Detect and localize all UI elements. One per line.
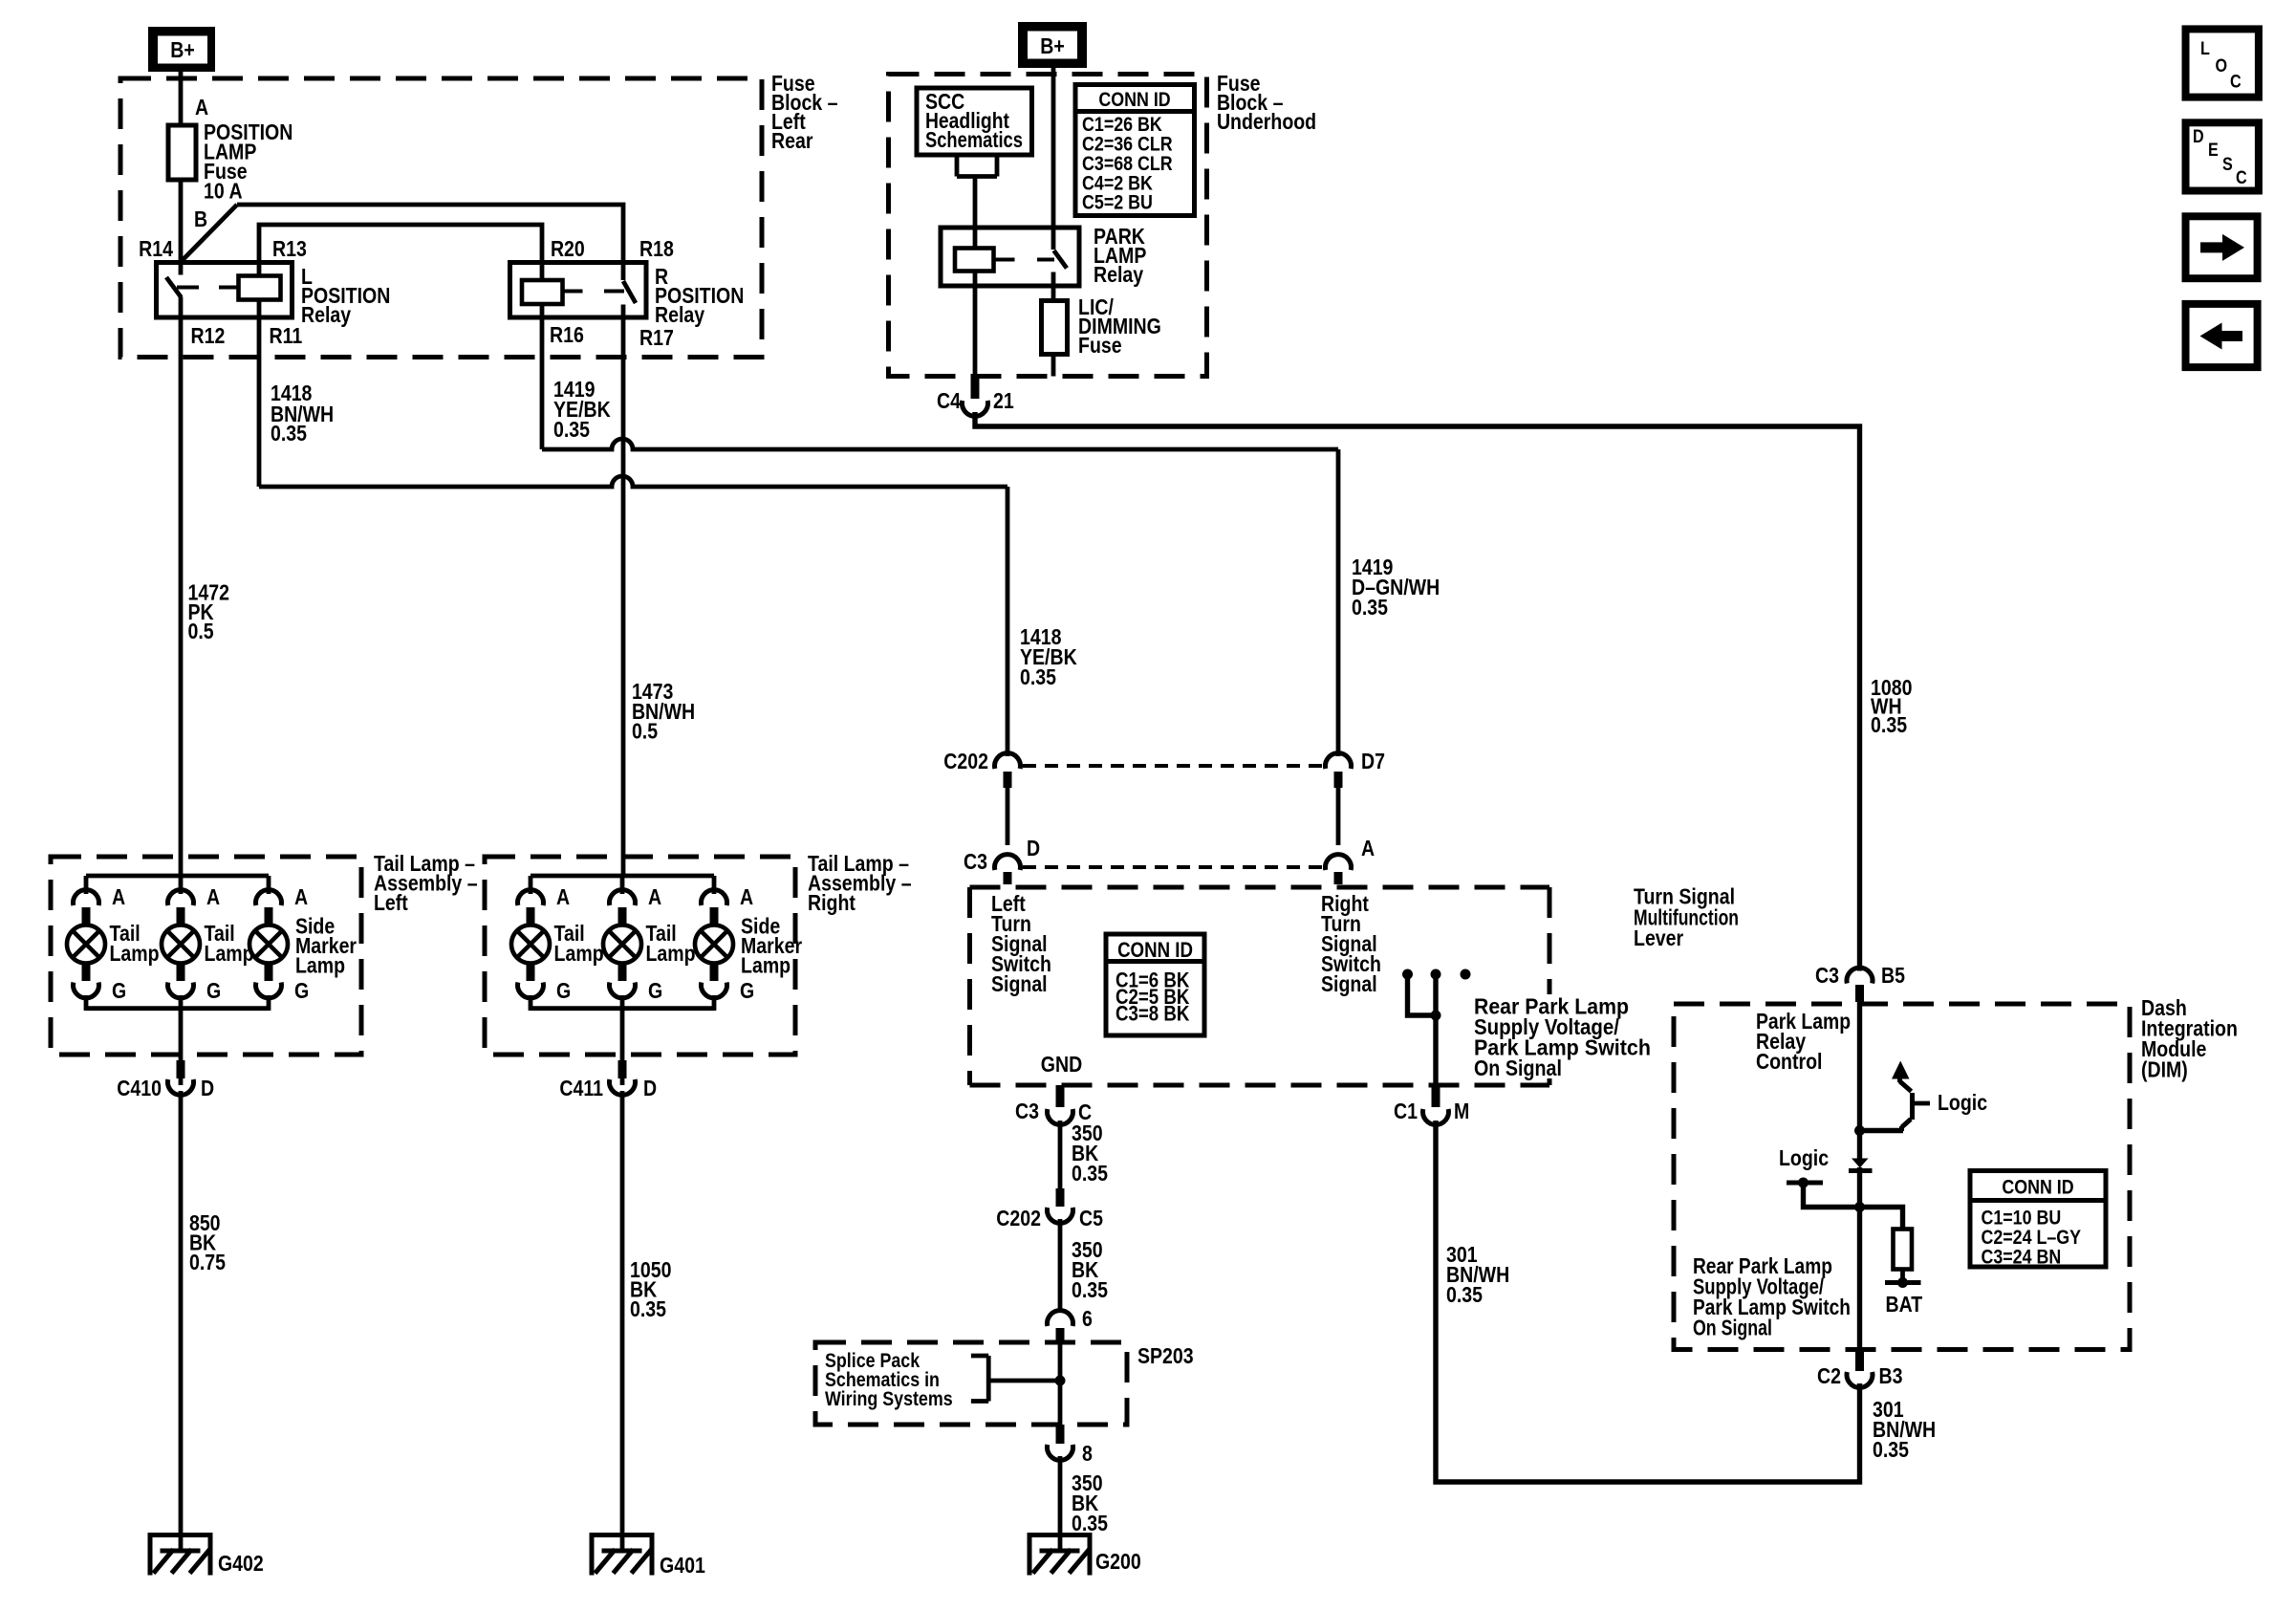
- wire DIM main lower: [1857, 1208, 1862, 1350]
- connector A of tail lamp 1 (Left): [74, 876, 126, 909]
- wire LIC fuse to box edge: [1051, 355, 1056, 377]
- svg-text:8: 8: [1082, 1442, 1093, 1467]
- svg-text:0.35: 0.35: [553, 418, 590, 443]
- wire B+ down to park lamp relay: [1051, 68, 1056, 250]
- relay K2 switch pole stub: [621, 263, 626, 281]
- label Side Marker Lamp (Left): [295, 914, 357, 978]
- connector D7: [1326, 750, 1385, 788]
- svg-text:C3=24 BN: C3=24 BN: [1981, 1246, 2061, 1269]
- svg-text:C5: C5: [1079, 1207, 1103, 1231]
- power feed B+ (underhood): [1018, 22, 1087, 68]
- wire C202 to C3-D: [1006, 788, 1010, 845]
- svg-text:R20: R20: [551, 237, 585, 262]
- svg-text:(DIM): (DIM): [2141, 1057, 2188, 1082]
- wire 8 down to G200: [1058, 1456, 1063, 1550]
- wire D7 to A: [1336, 788, 1341, 845]
- svg-text:B: B: [194, 207, 207, 232]
- label Logic (lower): [1779, 1146, 1829, 1171]
- pin R11 label: [270, 324, 303, 349]
- svg-text:0.35: 0.35: [1873, 1438, 1909, 1463]
- transistor Q1: [1892, 1061, 1930, 1132]
- CONN ID table (underhood): [1075, 85, 1195, 216]
- splice pack bracket: [971, 1356, 1060, 1402]
- label wire 350 BK 0.35 (b): [1072, 1238, 1108, 1303]
- label wire 1419 YE/BK 0.35: [553, 378, 611, 443]
- connector C3 pin C (GND): [1015, 1085, 1092, 1124]
- SCC bracket to wire: [957, 155, 997, 177]
- switch contact dot 2: [1431, 969, 1441, 980]
- wire coil to C4 bar: [973, 272, 978, 379]
- wire feed bus: [531, 874, 714, 879]
- svg-text:10 A: 10 A: [204, 179, 243, 204]
- label Tail Lamp 1 (Left): [109, 922, 159, 967]
- connector C411 pin D: [559, 1060, 657, 1100]
- pin R16 label: [550, 323, 584, 348]
- svg-text:G: G: [740, 979, 754, 1004]
- label wire 1080 WH 0.35: [1871, 676, 1912, 738]
- fuse F1 POSITION LAMP 10A: [168, 125, 196, 180]
- svg-text:A: A: [740, 885, 753, 910]
- junction dot collector: [1854, 1125, 1865, 1136]
- wire SCC to relay coil: [973, 177, 978, 249]
- svg-text:Schematics: Schematics: [925, 128, 1023, 153]
- svg-text:E: E: [2208, 140, 2219, 161]
- fuse block - left rear dashed box: [120, 78, 762, 358]
- bulb of tail lamp 1 (Right): [511, 907, 550, 981]
- svg-text:C2: C2: [1817, 1364, 1841, 1389]
- svg-text:R16: R16: [550, 323, 584, 348]
- svg-text:Rear: Rear: [771, 129, 812, 154]
- svg-text:C202: C202: [943, 750, 988, 774]
- connector C202 pin C5: [996, 1188, 1103, 1230]
- svg-text:A: A: [195, 96, 208, 120]
- connector A of tail lamp 2 (Right): [610, 876, 662, 909]
- connector G of tail lamp 1 (Right): [518, 979, 572, 1011]
- wire R16 down: [540, 304, 545, 449]
- svg-text:21: 21: [993, 389, 1014, 414]
- wire ground bus: [531, 1006, 714, 1011]
- wire C411 down to G401: [620, 1091, 625, 1550]
- svg-text:0.35: 0.35: [1072, 1512, 1108, 1536]
- wire 1418 down to C202: [1006, 487, 1010, 756]
- label PARK LAMP Relay: [1094, 225, 1146, 288]
- svg-text:0.5: 0.5: [632, 719, 658, 744]
- legend box LOC: [2186, 29, 2259, 97]
- label wire 1418 BN/WH 0.35: [271, 381, 334, 446]
- pin B label: [194, 207, 207, 232]
- relay K1 L POSITION box: [157, 263, 292, 318]
- fuse block - underhood dashed box: [889, 75, 1207, 377]
- connector C1 pin M: [1394, 1085, 1469, 1124]
- dashed link C202 to D7: [1023, 764, 1323, 768]
- wire R17 down to right tail lamp feed: [621, 305, 626, 877]
- svg-text:C3: C3: [964, 850, 987, 875]
- svg-text:Control: Control: [1756, 1050, 1822, 1075]
- relay K1 coil: [239, 276, 281, 300]
- svg-text:C3=8 BK: C3=8 BK: [1116, 1003, 1190, 1026]
- svg-text:D: D: [201, 1077, 214, 1101]
- svg-text:SP203: SP203: [1137, 1344, 1194, 1369]
- wire 1418 horizontal with hop: [259, 476, 1007, 487]
- bulb of side marker lamp (Left): [249, 907, 288, 981]
- svg-text:C202: C202: [996, 1207, 1041, 1231]
- switch contact dot 3 (open): [1461, 969, 1471, 980]
- SCC headlight schematics box: [917, 88, 1032, 155]
- relay K2 switch blade: [623, 281, 636, 303]
- wire contact1 to junction: [1408, 974, 1437, 1015]
- label Tail Lamp 1 (Right): [554, 922, 604, 967]
- svg-text:Logic: Logic: [1779, 1146, 1829, 1171]
- connector C410 pin D: [117, 1060, 214, 1100]
- tail lamp assembly Right dashed box: [485, 857, 795, 1055]
- svg-text:Fuse: Fuse: [1078, 334, 1122, 359]
- svg-text:0.35: 0.35: [1072, 1278, 1108, 1303]
- svg-text:Lamp: Lamp: [645, 942, 695, 967]
- label Tail Lamp Assembly Right: [808, 852, 912, 916]
- label SP203: [1137, 1344, 1194, 1369]
- svg-text:R12: R12: [190, 324, 225, 349]
- ground G402: [148, 1535, 213, 1576]
- svg-text:G: G: [556, 979, 571, 1004]
- wire ground bus: [86, 1006, 269, 1011]
- svg-text:Relay: Relay: [301, 303, 351, 328]
- svg-text:6: 6: [1082, 1307, 1093, 1332]
- svg-text:D: D: [1027, 837, 1040, 861]
- label wire 350 BK 0.35 (c): [1072, 1471, 1108, 1536]
- wire DIM main down: [1857, 1002, 1862, 1160]
- svg-text:0.35: 0.35: [1446, 1283, 1483, 1308]
- switch contact dot 1: [1402, 969, 1413, 980]
- svg-text:C: C: [2230, 71, 2242, 92]
- wire R11 down: [257, 300, 262, 488]
- svg-text:B+: B+: [170, 38, 195, 63]
- label Tail Lamp 2 (Right): [645, 922, 695, 967]
- label Park Lamp Relay Control: [1756, 1010, 1851, 1075]
- ground G401: [590, 1535, 655, 1576]
- svg-text:0.35: 0.35: [1352, 596, 1388, 620]
- wire 1419 horizontal with hop: [542, 439, 1338, 449]
- wire 1080 C4-21 to DIM C3-B5: [975, 412, 1860, 971]
- pin R12 label: [190, 324, 225, 349]
- label L POSITION Relay: [301, 265, 390, 328]
- junction dot SP203: [1055, 1376, 1066, 1386]
- svg-text:A: A: [1361, 837, 1375, 861]
- resistor R1: [1894, 1230, 1913, 1270]
- label wire 850 BK 0.75: [189, 1211, 226, 1275]
- svg-text:On Signal: On Signal: [1474, 1056, 1562, 1081]
- svg-text:CONN ID: CONN ID: [1117, 940, 1193, 963]
- relay K2 R POSITION box: [510, 263, 647, 318]
- svg-text:C411: C411: [559, 1077, 603, 1101]
- label wire 301 BN/WH 0.35 (left): [1446, 1243, 1509, 1308]
- connector G of tail lamp 1 (Left): [74, 979, 127, 1011]
- svg-text:Lamp: Lamp: [205, 942, 254, 967]
- svg-text:S: S: [2222, 154, 2233, 175]
- connector C4 pin 21: [937, 377, 1014, 417]
- svg-text:L: L: [2200, 38, 2210, 59]
- svg-text:B5: B5: [1881, 964, 1905, 989]
- svg-text:C: C: [2236, 167, 2247, 188]
- connector C3 pin D: [964, 837, 1040, 884]
- splice pack SP203 dashed box: [815, 1342, 1127, 1425]
- relay K1 switch blade: [166, 277, 182, 297]
- svg-text:B+: B+: [1040, 34, 1065, 59]
- svg-text:CONN ID: CONN ID: [1098, 89, 1170, 112]
- wire bus to connector D: [179, 1009, 184, 1085]
- label wire 350 BK 0.35 (a): [1072, 1121, 1108, 1186]
- svg-text:A: A: [294, 885, 308, 910]
- wire B+ to fuse A: [179, 72, 184, 125]
- relay K3 PARK LAMP box: [941, 228, 1079, 286]
- connector splice pin 6: [1048, 1307, 1094, 1343]
- wire contact2 down to C1-M: [1433, 974, 1438, 1085]
- label Logic (transistor base): [1938, 1091, 1987, 1116]
- pin A label: [195, 96, 208, 120]
- connector C2 pin B3: [1817, 1350, 1903, 1389]
- svg-text:G: G: [206, 979, 221, 1004]
- svg-text:Relay: Relay: [655, 303, 704, 328]
- pin R17 label: [639, 326, 674, 351]
- svg-text:G402: G402: [218, 1552, 264, 1577]
- svg-text:0.35: 0.35: [1871, 713, 1907, 738]
- svg-text:C5=2 BU: C5=2 BU: [1082, 191, 1153, 214]
- power feed B+ (left): [148, 27, 215, 72]
- connector G of side marker lamp (Right): [701, 979, 754, 1011]
- label Rear Park Lamp Supply Voltage (DIM): [1693, 1254, 1851, 1340]
- wire R12 down to left tail lamp feed: [179, 297, 184, 877]
- svg-text:A: A: [648, 885, 661, 910]
- wire relay to LIC fuse: [1051, 272, 1056, 302]
- label wire 1472 PK 0.5: [188, 580, 229, 643]
- svg-text:A: A: [112, 885, 125, 910]
- bulb of tail lamp 1 (Left): [67, 907, 105, 981]
- svg-text:A: A: [556, 885, 570, 910]
- svg-text:A: A: [206, 885, 220, 910]
- svg-text:Lever: Lever: [1634, 926, 1683, 951]
- wire fuse B down to relay R14: [179, 180, 184, 275]
- svg-text:Underhood: Underhood: [1217, 110, 1316, 135]
- dashed link C3-D to A: [1023, 865, 1323, 869]
- svg-text:Lamp: Lamp: [295, 953, 345, 978]
- wire logic to junction: [1804, 1183, 1903, 1230]
- wire diagonal B to bus: [181, 205, 237, 262]
- label R POSITION Relay: [655, 265, 744, 328]
- connector A (turn signal lever): [1326, 837, 1375, 884]
- wire 1419 down to D7: [1336, 449, 1341, 756]
- pin R20 label: [551, 237, 585, 262]
- svg-text:O: O: [2216, 55, 2228, 76]
- relay K2 coil: [522, 280, 563, 304]
- ground G200: [1028, 1535, 1093, 1576]
- svg-text:C3: C3: [1815, 964, 1839, 989]
- svg-text:B3: B3: [1879, 1364, 1903, 1389]
- svg-text:Lamp: Lamp: [109, 942, 159, 967]
- label Left Turn Signal Switch Signal: [991, 892, 1051, 997]
- pin R14 label: [139, 237, 173, 262]
- wire diode down: [1857, 1167, 1862, 1208]
- relay K2 mech link dashes: [563, 290, 625, 294]
- wire collector to main: [1860, 1128, 1904, 1133]
- label G401: [660, 1554, 705, 1578]
- label wire 1419 D-GN/WH 0.35 (mid): [1352, 555, 1440, 620]
- label BAT: [1886, 1293, 1923, 1317]
- svg-text:Relay: Relay: [1094, 263, 1143, 288]
- label GND: [1041, 1053, 1082, 1078]
- svg-text:R14: R14: [139, 237, 173, 262]
- svg-text:G401: G401: [660, 1554, 705, 1578]
- connector C3 pin B5: [1815, 964, 1905, 1002]
- label Fuse Block - Underhood: [1217, 72, 1316, 135]
- svg-text:C1: C1: [1394, 1099, 1418, 1124]
- connector G of tail lamp 2 (Right): [610, 979, 663, 1011]
- svg-text:Lamp: Lamp: [554, 942, 604, 967]
- label wire 301 BN/WH 0.35 (right): [1873, 1398, 1936, 1463]
- svg-text:0.75: 0.75: [189, 1251, 226, 1275]
- label wire 1418 YE/BK 0.35 (mid): [1020, 625, 1077, 690]
- relay K1 mech link dashes: [177, 286, 239, 290]
- svg-text:GND: GND: [1041, 1053, 1082, 1078]
- svg-text:0.35: 0.35: [630, 1297, 666, 1322]
- label LIC/DIMMING Fuse: [1078, 295, 1161, 359]
- wire C5 down to splice: [1058, 1219, 1063, 1313]
- connector A of tail lamp 1 (Right): [518, 876, 571, 909]
- label Turn Signal Multifunction Lever: [1634, 884, 1739, 950]
- svg-text:Logic: Logic: [1938, 1091, 1987, 1116]
- svg-text:D: D: [643, 1077, 657, 1101]
- bulb of tail lamp 2 (Right): [603, 907, 641, 981]
- connector C202 (top): [943, 750, 1020, 788]
- svg-text:D7: D7: [1361, 750, 1385, 774]
- dash integration module dashed box: [1674, 1004, 2130, 1350]
- connector A of side marker lamp (Right): [701, 876, 753, 909]
- svg-text:0.35: 0.35: [271, 422, 307, 446]
- svg-text:C410: C410: [117, 1077, 162, 1101]
- label Tail Lamp 2 (Left): [205, 922, 254, 967]
- wire GND down: [1058, 1121, 1063, 1190]
- junction dot lever switch: [1431, 1011, 1441, 1021]
- connector A of tail lamp 2 (Left): [167, 876, 220, 909]
- svg-text:Signal: Signal: [1321, 972, 1377, 997]
- connector A of side marker lamp (Left): [256, 876, 309, 909]
- relay K3 switch blade: [1054, 250, 1068, 269]
- bulb of tail lamp 2 (Left): [162, 907, 200, 981]
- svg-text:BAT: BAT: [1886, 1293, 1923, 1317]
- label Side Marker Lamp (Right): [741, 914, 802, 978]
- connector splice pin 8: [1048, 1425, 1094, 1466]
- label POSITION LAMP Fuse 10 A: [204, 120, 292, 204]
- tail lamp assembly Left dashed box: [51, 857, 361, 1055]
- svg-text:C3: C3: [1015, 1099, 1039, 1124]
- CONN ID table (DIM): [1970, 1171, 2106, 1269]
- svg-text:R17: R17: [639, 326, 674, 351]
- BAT terminal: [1885, 1277, 1921, 1288]
- label Tail Lamp Assembly Left: [374, 852, 478, 916]
- svg-text:Left: Left: [374, 891, 408, 916]
- svg-text:Lamp: Lamp: [741, 953, 791, 978]
- svg-text:On Signal: On Signal: [1693, 1316, 1772, 1340]
- label Fuse Block - Left Rear: [771, 72, 838, 154]
- wire bus to R18: [237, 205, 623, 263]
- wire resistor to BAT: [1900, 1270, 1905, 1283]
- turn signal multifunction lever dashed box: [970, 887, 1550, 1085]
- label wire 1050 BK 0.35: [630, 1258, 671, 1322]
- label Splice Pack Schematics in Wiring Systems: [825, 1350, 953, 1411]
- wire SP203 internal: [1058, 1343, 1063, 1425]
- svg-text:0.5: 0.5: [188, 620, 214, 644]
- CONN ID table (lever): [1106, 934, 1204, 1035]
- svg-text:0.35: 0.35: [1020, 665, 1056, 690]
- relay K3 mech link dashes: [994, 258, 1055, 262]
- logic terminal bar: [1787, 1178, 1823, 1188]
- connector G of side marker lamp (Left): [256, 979, 310, 1011]
- svg-text:Signal: Signal: [991, 972, 1048, 997]
- svg-text:G: G: [648, 979, 662, 1004]
- legend box left-arrow: [2186, 304, 2258, 367]
- fuse F2 LIC/DIMMING: [1042, 301, 1068, 355]
- svg-text:CONN ID: CONN ID: [2002, 1176, 2073, 1199]
- svg-text:Wiring Systems: Wiring Systems: [825, 1388, 953, 1411]
- svg-text:R18: R18: [639, 237, 674, 262]
- svg-text:G200: G200: [1095, 1550, 1141, 1575]
- label G200: [1095, 1550, 1141, 1575]
- legend box right-arrow: [2186, 216, 2258, 278]
- svg-text:Right: Right: [808, 891, 856, 916]
- junction dot lower: [1854, 1202, 1865, 1212]
- svg-text:0.35: 0.35: [1072, 1162, 1108, 1186]
- svg-text:D: D: [2193, 126, 2204, 147]
- label G402: [218, 1552, 264, 1577]
- pin R18 label: [639, 237, 674, 262]
- wire bus to connector D: [620, 1009, 625, 1085]
- wire C410 down to G402: [179, 1091, 184, 1550]
- connector G of tail lamp 2 (Left): [167, 979, 221, 1011]
- label wire 1473 BN/WH 0.5: [632, 680, 695, 744]
- svg-text:M: M: [1454, 1099, 1469, 1124]
- svg-text:R13: R13: [272, 237, 307, 262]
- label Rear Park Lamp Supply Voltage (lever): [1474, 994, 1651, 1080]
- legend box DESC: [2186, 122, 2259, 190]
- svg-text:C4: C4: [937, 389, 961, 414]
- bulb of side marker lamp (Right): [695, 907, 733, 981]
- svg-text:G: G: [294, 979, 309, 1004]
- relay K3 coil: [955, 249, 994, 272]
- diode D1: [1849, 1159, 1873, 1171]
- label Right Turn Signal Switch Signal: [1321, 892, 1381, 997]
- svg-text:G: G: [112, 979, 126, 1004]
- wire 301 C1-M down and right: [1436, 1121, 1860, 1482]
- wire R13 to R20 bus: [259, 225, 542, 280]
- svg-text:R11: R11: [270, 324, 303, 349]
- pin R13 label: [272, 237, 307, 262]
- label Dash Integration Module (DIM): [2141, 996, 2238, 1082]
- wire feed bus: [86, 874, 269, 879]
